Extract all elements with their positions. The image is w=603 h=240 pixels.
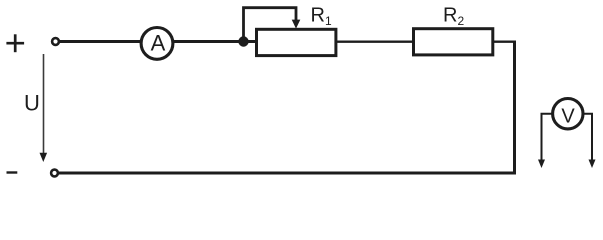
node − (negative supply terminal label) bbox=[7, 171, 18, 173]
wire: R2 to top-right corner bbox=[493, 41, 516, 43]
voltmeter left probe wire with arrow bbox=[538, 114, 553, 168]
wire: right vertical segment bbox=[513, 41, 516, 175]
voltage arrow U bbox=[40, 54, 48, 162]
svg-text:U: U bbox=[24, 91, 40, 116]
potentiometer R1 wiper arrow bbox=[244, 8, 301, 42]
wire: top-left terminal to ammeter bbox=[59, 40, 142, 43]
junction node (solder dot) bbox=[238, 36, 248, 46]
wire: R1 to R2 bbox=[336, 41, 414, 43]
node + (positive supply terminal label) bbox=[6, 34, 24, 52]
resistor R2 body bbox=[414, 29, 493, 55]
svg-text:A: A bbox=[151, 31, 166, 56]
voltmeter right probe wire with arrow bbox=[583, 114, 596, 168]
wire: bottom horizontal segment bbox=[58, 172, 516, 175]
terminal node bottom-left (open circle) bbox=[51, 170, 58, 177]
wire: ammeter to junction and on to R1 bbox=[173, 40, 258, 43]
ammeter A bbox=[141, 28, 173, 60]
svg-text:R2: R2 bbox=[443, 5, 464, 28]
potentiometer R1 body bbox=[257, 29, 336, 55]
svg-text:V: V bbox=[561, 105, 575, 127]
svg-text:R1: R1 bbox=[311, 5, 332, 28]
terminal node top-left (open circle) bbox=[52, 38, 59, 45]
voltmeter V bbox=[553, 99, 583, 129]
